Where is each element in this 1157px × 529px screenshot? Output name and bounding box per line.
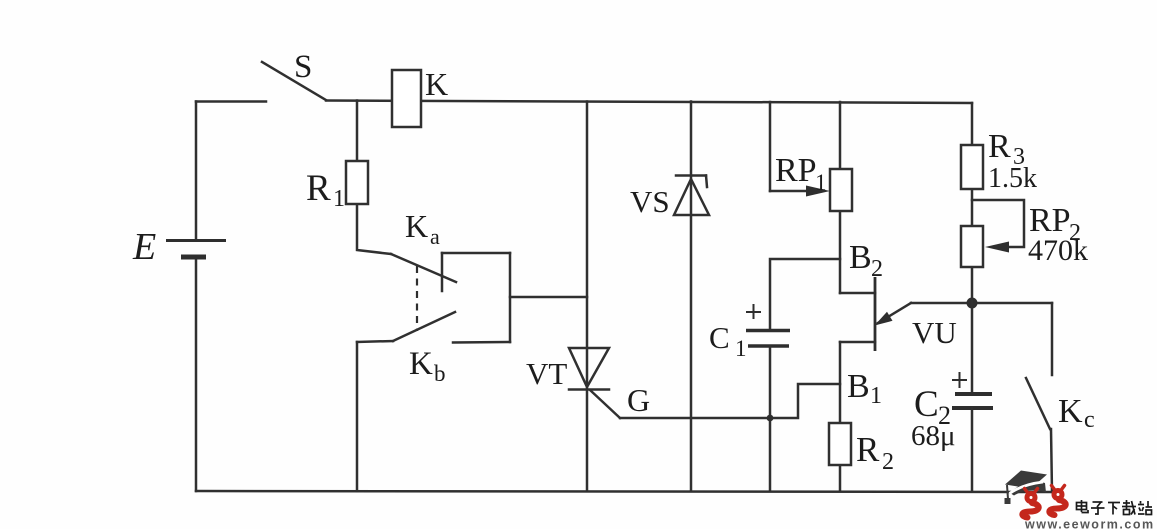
switch S blade: [262, 62, 326, 100]
wire VS column: [690, 102, 693, 492]
logo cap white band: [1010, 482, 1044, 494]
logo red bug character 1: [1022, 489, 1038, 518]
transistor VU emitter lead: [878, 303, 911, 323]
wire gate G: [620, 384, 840, 418]
wire top rail: [326, 101, 972, 104]
svg-text:K: K: [1058, 393, 1083, 430]
svg-text:a: a: [430, 224, 440, 249]
logo text xia: [1108, 503, 1120, 515]
thyristor VT: [569, 348, 620, 418]
resistor R3: [961, 145, 983, 189]
svg-text:2: 2: [882, 449, 894, 475]
logo graduation cap base: [1010, 482, 1046, 495]
wire R3 column: [971, 103, 974, 394]
wire Kb pole jog: [357, 341, 393, 342]
junction C1/gate wire: [767, 415, 774, 422]
relay coil K: [392, 70, 421, 127]
node junction dot: [967, 298, 978, 309]
wire B2 jog: [840, 292, 875, 295]
wire VT anode column: [586, 102, 589, 492]
wire Kb pole column: [356, 342, 359, 491]
wire B2 column upper: [839, 102, 842, 293]
wire C1 top tap: [770, 259, 840, 330]
svg-text:VU: VU: [912, 315, 957, 350]
resistor R1: [346, 161, 368, 204]
wire C2 bottom: [971, 408, 974, 491]
svg-text:c: c: [1084, 407, 1095, 433]
dashed mechanical link Ka-Kb: [416, 266, 418, 331]
resistor R2: [829, 423, 851, 465]
RP1 wiper arrowhead: [806, 186, 830, 197]
switch Kc top lead: [1051, 303, 1054, 375]
transistor VU base bar: [874, 277, 877, 351]
battery E positive plate: [166, 239, 226, 242]
svg-text:RP: RP: [775, 152, 817, 189]
relay contact box top edge: [442, 252, 510, 255]
potentiometer RP2: [961, 226, 983, 267]
wire contact box output: [510, 296, 587, 299]
logo cap tassel: [1007, 485, 1008, 499]
relay contact Kb blade: [393, 312, 455, 341]
svg-text:C: C: [914, 384, 939, 425]
C1 polarity plus: [746, 304, 761, 319]
svg-text:B: B: [849, 239, 872, 276]
capacitor C1: [746, 329, 790, 332]
relay contact box bottom edge: [453, 341, 510, 344]
svg-text:C: C: [709, 320, 730, 355]
svg-text:68μ: 68μ: [911, 420, 956, 452]
wire left rail lower: [195, 257, 198, 491]
svg-text:www.eeworm.com: www.eeworm.com: [1024, 518, 1155, 529]
switch Kc blade: [1026, 378, 1050, 429]
logo graduation cap top board: [1005, 471, 1047, 489]
relay contact box left edge (Ka fixed contact): [441, 253, 444, 291]
svg-text:S: S: [294, 49, 312, 85]
potentiometer RP1: [830, 169, 852, 211]
svg-text:G: G: [627, 382, 650, 418]
svg-text:470k: 470k: [1028, 234, 1088, 267]
wire B1 column: [839, 342, 842, 491]
wire bottom rail: [196, 491, 1052, 492]
svg-text:K: K: [405, 208, 428, 244]
svg-text:1.5k: 1.5k: [988, 163, 1037, 194]
svg-text:2: 2: [871, 256, 883, 282]
wire RP1 wiper arm: [770, 190, 812, 193]
zener diode VS: [674, 176, 709, 216]
svg-text:B: B: [847, 368, 870, 405]
logo text zhan: [1138, 501, 1152, 515]
wire emitter rail: [911, 302, 1052, 305]
svg-text:R: R: [856, 430, 880, 469]
relay contact Ka blade: [391, 254, 456, 282]
wire C1 bottom: [769, 346, 772, 491]
RP2 wiper arrowhead: [985, 242, 1009, 253]
svg-text:1: 1: [815, 170, 827, 195]
logo red bug character 2: [1049, 486, 1065, 516]
wire R1 to Ka pole: [357, 200, 391, 254]
logo text dian (electronics): [1077, 500, 1089, 513]
svg-text:E: E: [132, 226, 156, 268]
svg-text:b: b: [434, 361, 446, 386]
switch Kc bottom lead: [1051, 429, 1052, 492]
logo text zi: [1091, 502, 1105, 514]
wire RP1 wiper feed column: [769, 102, 772, 191]
capacitor C2: [955, 392, 992, 396]
wire top-left stub (S fixed contact): [196, 100, 266, 103]
svg-text:1: 1: [870, 383, 882, 409]
VU emitter arrowhead: [875, 312, 893, 326]
svg-text:1: 1: [735, 336, 747, 361]
C2 polarity plus: [952, 372, 967, 388]
battery E negative plate: [181, 255, 206, 260]
svg-text:K: K: [409, 346, 433, 382]
svg-text:R: R: [988, 128, 1011, 165]
logo text zai: [1122, 500, 1136, 515]
svg-text:K: K: [425, 66, 448, 102]
wire B1 jog: [840, 341, 875, 344]
wire R1 branch upper: [356, 101, 359, 166]
wire RP2 tap: [972, 200, 1024, 247]
wire left rail upper: [195, 102, 198, 241]
svg-text:R: R: [306, 168, 331, 209]
svg-text:VS: VS: [630, 184, 670, 219]
svg-text:1: 1: [333, 186, 345, 212]
svg-text:VT: VT: [526, 356, 567, 391]
relay contact box right edge: [509, 253, 512, 342]
